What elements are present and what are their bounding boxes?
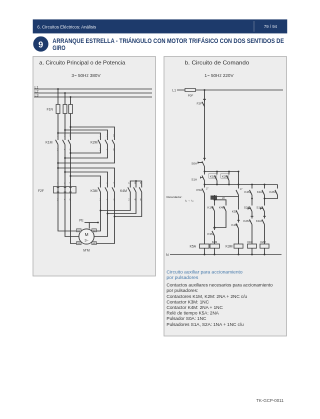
pushbutton S0A NC	[198, 158, 206, 167]
motor terminal V1	[77, 242, 82, 245]
svg-text:M: M	[85, 232, 89, 237]
wire K4M pole3 join K3M pole3	[115, 198, 142, 217]
thermal relay F2F box	[54, 187, 77, 194]
K2M return and K1M through-wire group	[58, 148, 115, 185]
wire K2M pin2 return to phase3	[71, 148, 101, 154]
junction bus1 a	[204, 171, 206, 173]
wire drop phase1 from L1	[57, 89, 59, 137]
wire bracket2 inner to K3M pole1	[71, 176, 101, 185]
wire phase3 through K1M down	[70, 148, 72, 185]
wire F2F pole3 to motor W1	[71, 198, 81, 244]
contactor K4M pole3 contact	[139, 185, 142, 198]
pushbutton S1A right NO	[261, 203, 265, 216]
junction PE	[97, 222, 99, 224]
wire main vertical	[204, 90, 206, 160]
wire S0A to bus1	[204, 167, 206, 172]
contactor K2M pole3 contact	[112, 137, 115, 148]
wire K2M coil to N	[264, 248, 266, 254]
svg-text:K2M: K2M	[91, 141, 98, 145]
pushbutton S1A NO	[201, 172, 205, 185]
fuse F1N pole 2	[63, 105, 67, 114]
contactor K3M pole1 contact	[98, 185, 101, 198]
loop contact K4M	[215, 203, 227, 228]
junction bus2 f	[264, 184, 266, 186]
motor terminal U1	[77, 229, 82, 232]
svg-text:L3: L3	[35, 93, 39, 97]
fuse F0F	[185, 89, 196, 92]
motor terminal U2	[92, 242, 97, 245]
svg-text:F1N: F1N	[47, 108, 54, 112]
junction bus2 d	[238, 184, 240, 186]
svg-text:Pulsadores S1A, S2A: 1NA + 1NC: Pulsadores S1A, S2A: 1NA + 1NC c/u	[167, 322, 245, 327]
motor terminal group	[77, 229, 97, 245]
junction N b	[214, 254, 216, 256]
svg-text:S1A: S1A	[191, 177, 197, 181]
svg-text:Pulsador S0A: 1NC: Pulsador S0A: 1NC	[167, 316, 208, 321]
number badge 9	[33, 36, 48, 51]
junction rail tap	[204, 89, 206, 91]
coil K1M	[248, 244, 257, 248]
bracket set 2 group	[58, 168, 115, 185]
svg-text:3~ 50Hz 380V: 3~ 50Hz 380V	[72, 73, 101, 78]
wire K4M coil to N	[214, 248, 216, 254]
svg-text:TK-GCP-0011: TK-GCP-0011	[256, 398, 284, 403]
svg-text:79 / 94: 79 / 94	[264, 24, 278, 29]
junction bracket tap p1	[57, 132, 59, 134]
svg-text:K2M: K2M	[243, 219, 250, 223]
svg-text:F0F: F0F	[188, 94, 194, 98]
wire drop phase2 from L2	[64, 93, 66, 137]
svg-text:1~ 50Hz 220V: 1~ 50Hz 220V	[205, 73, 234, 78]
aux contact K4M right	[250, 185, 253, 199]
junction N c	[238, 254, 240, 256]
wire bracket to K2M pin3	[65, 130, 108, 137]
contactor K2M pole2 contact	[105, 137, 108, 148]
junction bus2 b	[216, 184, 218, 186]
svg-text:Contactos auxiliares necesario: Contactos auxiliares necesarios para acc…	[167, 283, 274, 288]
junction bracket tap p3	[70, 126, 72, 128]
wire K1M coil to N	[251, 248, 253, 254]
svg-text:K4M: K4M	[120, 189, 127, 193]
neutral rail N	[170, 254, 282, 256]
junction right rejoin	[264, 198, 266, 200]
wire bracket2 mid to K3M pole2	[65, 172, 108, 185]
svg-text:F2F: F2F	[197, 101, 203, 105]
svg-text:Relé de tiempo K5A: 2NA: Relé de tiempo K5A: 2NA	[167, 311, 220, 316]
junction bus1 d	[238, 171, 240, 173]
contactor K1M pole2 contact	[63, 137, 66, 148]
wire bus1 drop right	[238, 172, 240, 185]
junction bus1 b	[216, 171, 218, 173]
motor M'M circle	[79, 229, 94, 244]
header bar	[33, 19, 287, 33]
svg-text:a. Circuito Principal o de Pot: a. Circuito Principal o de Potencia	[39, 61, 125, 67]
svg-text:F2F: F2F	[38, 189, 44, 193]
junction return p2	[64, 157, 66, 159]
junction return p1	[57, 162, 59, 164]
wire F2F pole2 to motor V1	[65, 198, 79, 237]
junction bracket2 p2	[64, 171, 66, 173]
svg-text:N: N	[166, 253, 169, 257]
coil-to-N wire group	[205, 248, 265, 254]
thermal relay F2F pole2	[64, 185, 66, 198]
header separator	[253, 21, 255, 32]
junction loop rejoin	[214, 227, 216, 229]
contact K5A star	[236, 203, 239, 220]
thermal relay F2F pole1	[57, 185, 59, 198]
wire branch K4M loop top	[215, 200, 227, 203]
aux contact K2M hold label box	[221, 174, 229, 179]
wire bracket to K2M pin1	[71, 127, 115, 137]
junction bus2 c	[228, 184, 230, 186]
svg-text:b. Circuito de Comando: b. Circuito de Comando	[185, 61, 250, 67]
wire K4M pole2 join K3M pole2	[108, 198, 137, 214]
svg-text:K5A: K5A	[190, 245, 197, 249]
aux contact K1M hold	[215, 172, 218, 185]
junction N a	[204, 254, 206, 256]
coil K4M	[210, 244, 220, 248]
contactor K2M contact group	[98, 137, 115, 148]
svg-text:Contactores K1M, K2M: 2NA + 2N: Contactores K1M, K2M: 2NA + 2NC c/u	[167, 294, 248, 299]
svg-text:Circuito auxiliar para acciona: Circuito auxiliar para accionamiento	[167, 270, 243, 276]
motor terminal W2	[92, 229, 97, 232]
wire L1 rail	[177, 89, 283, 91]
wire timer link	[212, 196, 239, 198]
svg-text:S0A: S0A	[191, 162, 197, 166]
junction L3 tap	[70, 96, 72, 98]
junction bus2 a	[204, 184, 206, 186]
wire bus1	[205, 171, 239, 173]
junction K4M-K3M p3	[114, 216, 116, 218]
contact K5A instantaneous	[236, 185, 239, 204]
coil K3M	[234, 244, 243, 248]
svg-text:9: 9	[38, 39, 43, 49]
interlock K2M NC	[250, 216, 254, 244]
junction bus2 e	[251, 184, 253, 186]
fuse F1N group	[56, 105, 72, 114]
contactor K1M pole1 contact	[56, 137, 59, 148]
aux contact K1M hold label box	[209, 174, 217, 179]
panel b: Circuito de Comando	[164, 57, 287, 337]
timer function block	[211, 196, 218, 200]
svg-text:K2M: K2M	[260, 240, 265, 244]
junction L1 tap	[57, 88, 59, 90]
svg-text:K4M: K4M	[212, 240, 217, 244]
wire bracket to K2M pin5	[58, 133, 101, 137]
junction N e	[264, 254, 266, 256]
svg-text:6. Circuitos Eléctricos: Análi: 6. Circuitos Eléctricos: Análisis	[37, 25, 97, 30]
wire F2F pole1 to motor U1	[58, 198, 80, 232]
K2M feeder bracket group	[58, 127, 115, 137]
svg-text:K1M: K1M	[247, 240, 252, 244]
svg-text:Retardador:: Retardador:	[167, 195, 183, 199]
svg-text:ARRANQUE ESTRELLA - TRIÁNGULO: ARRANQUE ESTRELLA - TRIÁNGULO CON MOTOR …	[53, 38, 285, 45]
junction L2 tap	[64, 92, 66, 94]
phase drop group	[58, 89, 71, 137]
wire K5A coil to N	[204, 248, 206, 254]
pushbutton S2A NO	[248, 203, 252, 216]
svg-text:Contactor K3M: 1NC: Contactor K3M: 1NC	[167, 299, 210, 304]
panel a: Circuito Principal o de Potencia	[33, 57, 156, 277]
svg-text:K1M: K1M	[256, 219, 263, 223]
contactor K3M pole3 contact	[112, 185, 115, 198]
contactor K4M contact group	[128, 185, 142, 198]
coil K2M	[260, 244, 269, 248]
wire branch left loop	[214, 195, 216, 203]
wire bracket2 outer to K3M pole3	[58, 168, 115, 185]
wire K3M coil to N	[238, 248, 240, 254]
fuse F1N pole 1	[56, 105, 60, 114]
wire right branch b	[264, 199, 266, 204]
svg-text:t₁ → t₂: t₁ → t₂	[185, 199, 194, 203]
rail group	[34, 89, 152, 97]
thermal relay F2F pole3	[69, 185, 71, 198]
aux contact K1M right	[262, 185, 265, 199]
junction K4M-K3M p1	[100, 210, 102, 212]
junction loop top	[214, 199, 216, 201]
wire PE drop	[88, 223, 90, 229]
svg-text:K3M: K3M	[91, 189, 98, 193]
junction bracket tap p2	[64, 129, 66, 131]
aux contact K2M hold	[227, 172, 230, 185]
svg-text:por pulsadores: por pulsadores	[167, 275, 199, 281]
svg-text:K5A: K5A	[196, 188, 202, 192]
wire K3M pole1 down to motor W2	[94, 198, 101, 232]
contactor K3M contact group	[98, 185, 115, 198]
timer contact K5A	[202, 185, 205, 245]
junction right a	[251, 198, 253, 200]
svg-text:L1: L1	[172, 88, 176, 92]
svg-text:GIRO: GIRO	[53, 46, 66, 52]
svg-text:Contactor K4M: 2NA + 1NC: Contactor K4M: 2NA + 1NC	[167, 305, 224, 310]
thermal relay F2F pole group	[57, 185, 72, 198]
contactor K1M pole3 contact	[68, 137, 71, 148]
coil K5A	[200, 244, 210, 248]
svg-text:por pulsadores:: por pulsadores:	[167, 288, 199, 293]
junction bus1 c	[228, 171, 230, 173]
junction bracket2 p1	[57, 167, 59, 169]
wire K2M pin6 return to phase1	[58, 148, 115, 164]
svg-text:K1M: K1M	[46, 141, 53, 145]
svg-text:K3M: K3M	[226, 245, 233, 249]
wire phase2 through K1M down	[64, 148, 66, 185]
loop contact K1M	[212, 203, 215, 228]
junction return p3	[70, 152, 72, 154]
motor feeder wire group	[58, 198, 142, 244]
rail L3	[34, 96, 152, 98]
contactor K3M pole2 contact	[105, 185, 108, 198]
svg-text:3~: 3~	[84, 239, 88, 243]
contactor K2M pole1 contact	[98, 137, 101, 148]
svg-text:M’M: M’M	[83, 249, 90, 253]
wire K4M pole1 join K3M pole1	[101, 198, 131, 211]
junction K4M-K3M p2	[107, 213, 109, 215]
wire right branch a	[251, 199, 253, 204]
rail L2	[34, 92, 152, 94]
junction N d	[251, 254, 253, 256]
contactor K4M pole2 contact	[134, 185, 137, 198]
junction bracket2 p3	[70, 175, 72, 177]
contactor K1M contact group	[56, 137, 71, 148]
aux contact K2M right	[265, 185, 278, 199]
wire drop phase3 from L3	[70, 97, 72, 137]
wire phase1 through K1M down	[57, 148, 59, 185]
contactor K4M star bridge	[130, 181, 141, 185]
wire K3M pole3 down to motor V2	[93, 198, 115, 244]
junction star bridge	[135, 180, 137, 182]
wire K3M pole2 down to motor U2	[94, 198, 108, 237]
contact K4M NC	[236, 220, 240, 244]
wire PE to motor frame	[85, 222, 99, 224]
contact K3M NC	[212, 228, 216, 245]
contactor K4M pole1 contact	[128, 185, 131, 198]
rail L1	[34, 88, 152, 90]
wire K2M pin4 return to phase2	[65, 148, 108, 159]
fuse F1N pole 3	[69, 105, 73, 114]
contact F2F NC trip	[202, 99, 206, 107]
wire bus2	[205, 184, 278, 186]
svg-text:PE: PE	[79, 218, 83, 222]
interlock K1M NC	[262, 216, 266, 244]
